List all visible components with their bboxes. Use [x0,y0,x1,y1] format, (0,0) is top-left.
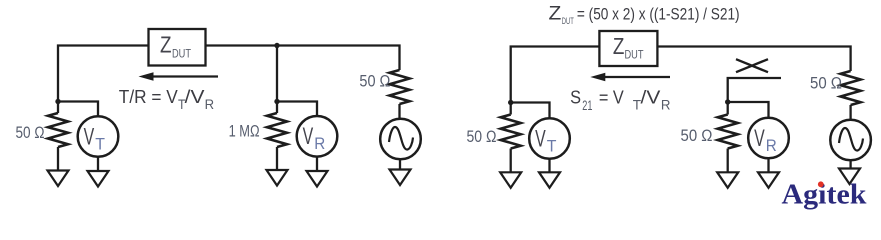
wire: left top rail from box to right branch, down to 50 ohm resistor [206,46,400,71]
svg-text:/V: /V [185,86,206,107]
svg-text:R: R [314,134,325,153]
svg-text:50 Ω: 50 Ω [467,128,497,146]
ground below V_T (right) [539,172,560,188]
wire: AC source to ground (left) [399,159,401,169]
label T/R = VT/VR [119,86,214,112]
svg-text:= (50 x 2) x ((1-S21) / S21): = (50 x 2) x ((1-S21) / S21) [577,5,740,23]
svg-text:/V: /V [641,87,662,108]
wire: node to V_T source (right) [511,103,550,119]
source V_T (right) [529,118,570,159]
wire: node to V_R source (right) [728,102,769,118]
DUT box Z_DUT (right) [599,31,657,66]
wire: resistor to AC source (right) [849,105,851,120]
wire: V_T to ground [97,157,99,170]
X cut mark [736,59,768,72]
resistor R2 1 Mohm [267,102,287,170]
svg-text:T/R = V: T/R = V [119,86,179,107]
svg-text:50 Ω: 50 Ω [810,74,842,92]
ground below V_R (right) [758,172,779,188]
source V_T (left) [78,116,119,157]
svg-text:21: 21 [582,97,592,113]
arrow: transmission direction (left circuit) [139,72,219,81]
svg-text:50 Ω: 50 Ω [359,72,390,90]
label S21 = V T/VR [570,87,670,113]
svg-text:V: V [84,123,95,150]
ground below R1 [48,171,69,187]
junction node at V_R branch (277,101.5) [274,99,279,104]
svg-text:R: R [661,96,671,112]
svg-text:50 Ω: 50 Ω [681,127,713,145]
resistor R3 50 ohm (left source branch) [390,70,410,104]
AC source (left) [380,119,421,160]
ground below R4 [500,172,521,188]
svg-text:Z: Z [549,3,562,24]
wire: node to V_T source (left) [58,102,98,117]
svg-text:R: R [205,96,215,112]
junction node at top rail (277,45.5) [274,43,279,48]
wire: left top rail from left node up and right to Z_DUT box [58,46,148,102]
source V_R (left) [297,116,338,157]
resistor R1 50 ohm (left input branch) [48,102,68,171]
source V_R (right) [748,118,789,159]
junction node at V_T branch (right) [508,100,513,105]
wire: V_R to ground [316,157,318,170]
ground below V_R (left) [307,171,328,187]
wire: right top rail from box to source branch, down to 50 ohm [658,47,851,72]
svg-text:DUT: DUT [172,47,192,61]
label Z_DUT (right box) [613,33,644,62]
svg-text:Z: Z [160,32,172,58]
label Z_DUT (left box) [160,32,192,61]
wire: resistor to AC source [398,104,400,119]
ground below AC source (right) [839,169,860,185]
svg-text:50 Ω: 50 Ω [16,124,45,142]
svg-text:T: T [547,136,557,155]
ground below R5 [717,172,738,188]
wire: V_T right to ground [548,159,550,172]
op-amp/DUT box Z_DUT (left) [149,29,206,66]
svg-text:T: T [95,134,105,153]
resistor R4 50 ohm (right input branch) [501,103,521,172]
resistor R5 50 ohm (right reference branch) [718,102,738,172]
AC source (right) [830,120,871,161]
wire: AC source to ground (right) [849,160,851,168]
junction node at V_T branch (58,101.5) [55,99,60,104]
svg-text:1 MΩ: 1 MΩ [229,123,260,141]
resistor R6 50 ohm (right source branch) [841,71,861,105]
svg-text:DUT: DUT [562,16,574,27]
wire: V_R right to ground [767,158,769,171]
ground below 1 Mohm [267,170,288,186]
ground below AC source (left) [390,170,411,186]
svg-text:Z: Z [613,33,625,59]
junction node at V_R branch (right) [725,99,730,104]
wire: right top rail from V_T node up and right to Z_DUT box [511,47,600,103]
svg-text:= V: = V [599,87,624,108]
arrow: transmission direction (right circuit) [590,73,670,82]
wire: drop from top rail to 1 Mohm node [276,46,278,102]
ground below V_T [88,171,109,187]
formula label ZDUT = (50 x 2) x ((1-S21) / S21) [549,3,740,27]
svg-text:DUT: DUT [625,48,645,62]
svg-text:V: V [754,125,765,152]
svg-text:V: V [535,125,546,152]
Agitek logo [782,179,868,211]
cut stub wire above V_R node (right) [728,78,781,102]
svg-text:V: V [303,123,314,150]
svg-text:Agitek: Agitek [782,179,868,211]
wire: node to V_R source (left) [277,102,317,117]
svg-text:S: S [570,87,581,108]
svg-text:R: R [766,136,777,155]
